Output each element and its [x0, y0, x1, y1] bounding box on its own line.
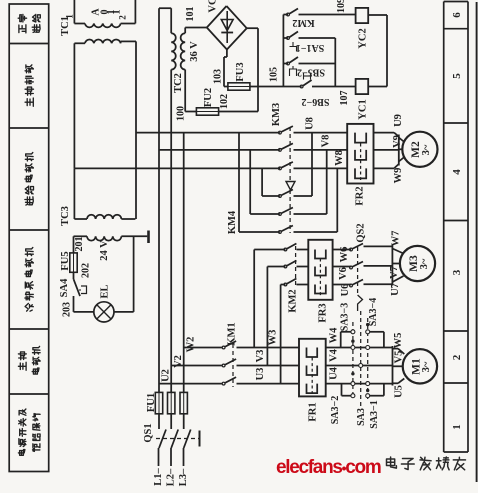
svg-text:W3: W3	[268, 330, 279, 346]
tap wire to KM2-3	[280, 285, 282, 384]
label 电源开关及短路保护	[18, 450, 25, 456]
svg-text:SA4: SA4	[59, 278, 70, 297]
svg-text:107: 107	[339, 91, 350, 106]
svg-text:KM4: KM4	[227, 210, 238, 234]
svg-text:QS2: QS2	[355, 223, 366, 242]
svg-text:V5: V5	[393, 351, 404, 364]
svg-text:FU2: FU2	[203, 88, 214, 107]
svg-text:L2–: L2–	[166, 468, 177, 486]
tap wire to KM2-1	[253, 250, 255, 348]
switch SA1-1	[283, 37, 288, 39]
wire 102 to bridge	[219, 111, 258, 113]
svg-text:elecfans•com: elecfans•com	[276, 457, 381, 478]
wire KM1 to FR1 c	[237, 383, 300, 385]
svg-text:24 V: 24 V	[99, 240, 110, 261]
wire L2 to QS1	[170, 448, 172, 466]
button SB5-2	[283, 63, 288, 65]
wire YC1 return	[368, 86, 387, 88]
svg-text:105: 105	[269, 67, 280, 82]
label 主轴电动机	[18, 362, 26, 370]
svg-text:102: 102	[219, 94, 230, 109]
contact KM3-2	[279, 149, 282, 152]
phase wire node 3 (y168.4)	[74, 167, 280, 169]
wire L3 to QS1	[183, 448, 185, 466]
node 105 wire	[250, 86, 302, 88]
wire TC2 primary top (pi cap)	[170, 8, 172, 33]
node V8	[326, 150, 328, 214]
return bus vertical	[386, 15, 388, 87]
svg-text:2: 2	[118, 15, 128, 20]
tap wire V2 to KM1	[171, 365, 222, 367]
wire FR2 to M2 V9	[374, 149, 399, 151]
bus W2	[183, 133, 185, 393]
svg-text:W9: W9	[393, 168, 404, 184]
label 主轴制动	[25, 98, 33, 106]
motor M2	[398, 135, 400, 166]
svg-text:QS1: QS1	[143, 423, 154, 442]
wire SA4 to EL	[73, 296, 75, 312]
selector SA3 bottom bypass jog	[341, 384, 343, 396]
svg-text:L3–: L3–	[178, 468, 189, 486]
svg-text:V4: V4	[329, 348, 340, 362]
wire SA1/SB5 join	[334, 38, 336, 87]
SA3 contact circles	[351, 330, 355, 334]
svg-text:YC1: YC1	[358, 99, 369, 119]
tap wire to KM2-2	[266, 267, 268, 366]
KM4 crossover wire a	[238, 133, 240, 232]
svg-text:SA3: SA3	[356, 408, 367, 426]
svg-text:203: 203	[62, 302, 73, 317]
phase wire node 1 (y132.6)	[136, 132, 280, 134]
wire QS1 to FU1	[158, 414, 160, 426]
svg-text:SA1−1: SA1−1	[296, 42, 324, 53]
svg-text:4: 4	[451, 169, 463, 175]
svg-text:3~: 3~	[419, 258, 430, 269]
clutch YC1	[356, 79, 369, 94]
svg-text:YC2: YC2	[358, 28, 369, 48]
svg-text:SB6−2: SB6−2	[302, 96, 330, 107]
svg-text:VC: VC	[208, 0, 219, 13]
watermark 电子发烧友	[387, 457, 397, 468]
svg-text:U5: U5	[394, 385, 405, 398]
svg-text:FU3: FU3	[235, 62, 246, 81]
button SB6-2	[300, 85, 303, 88]
svg-text:2: 2	[451, 354, 463, 360]
svg-text:1: 1	[112, 10, 123, 15]
wire bridge to 103	[226, 50, 228, 58]
svg-text:201: 201	[74, 237, 85, 252]
sheet border left label column	[9, 4, 49, 472]
wire FR2 to M2 U9	[374, 132, 395, 134]
wire TC1 primary left	[73, 43, 75, 168]
contact KM4-3	[279, 231, 282, 234]
svg-text:W4: W4	[329, 327, 340, 344]
selector SA3 dashed columns	[352, 322, 354, 399]
svg-text:FR2: FR2	[355, 186, 366, 205]
wire FR1 to M1 U4	[326, 383, 393, 385]
wire TC1 secondary left up	[73, 0, 75, 24]
svg-text:3~: 3~	[421, 361, 432, 372]
svg-text:101: 101	[185, 7, 196, 22]
motor M1	[392, 346, 394, 386]
svg-text:U4: U4	[329, 366, 340, 380]
svg-text:TC3: TC3	[60, 206, 71, 226]
svg-text:W8: W8	[334, 150, 345, 166]
wire KM1 to FR1 a	[237, 347, 300, 349]
overload relay FR3	[308, 240, 332, 300]
svg-text:U3: U3	[255, 368, 266, 381]
contact KM3-1	[279, 131, 282, 134]
svg-text:5: 5	[451, 73, 463, 79]
wire YC2 return	[368, 14, 387, 16]
svg-text:EL: EL	[100, 284, 111, 298]
svg-text:1: 1	[65, 14, 75, 19]
wire FR1 to M1 V4	[326, 365, 393, 367]
svg-text:U9: U9	[393, 114, 404, 127]
svg-text:V6: V6	[338, 267, 349, 280]
svg-text:U8: U8	[305, 117, 316, 130]
svg-text:SA3−1: SA3−1	[369, 400, 380, 428]
wire 101 to bridge	[184, 28, 186, 34]
svg-text:103: 103	[213, 69, 224, 84]
KM3/KM4 linkage	[289, 127, 291, 233]
contact KM4-1	[279, 195, 282, 198]
wire L1 to QS1	[158, 448, 160, 466]
svg-text:SA3−4: SA3−4	[368, 298, 379, 326]
wire QS2 to M3	[364, 245, 393, 247]
svg-text:W7: W7	[391, 231, 402, 247]
phase wire node 2 (y149.9)	[159, 149, 280, 151]
ground bar	[147, 231, 150, 244]
tap wire U2 to KM1	[159, 383, 223, 385]
wire TC1 secondary right	[121, 23, 136, 25]
clutch YC2	[356, 8, 369, 23]
node U8	[311, 133, 313, 196]
tap wire W2 to KM1	[184, 347, 223, 349]
wire TC3 secondary left	[74, 235, 88, 237]
label 进给电动机	[25, 197, 33, 205]
motor M3	[391, 245, 393, 286]
selector SA3 top bypass jog	[340, 332, 342, 348]
svg-text:3: 3	[451, 269, 463, 275]
label 冷却泵电动机	[25, 303, 33, 311]
svg-text:3~: 3~	[421, 144, 432, 155]
wire TC1/TC3 vertical x136	[135, 41, 137, 219]
svg-text:V3: V3	[255, 350, 266, 363]
svg-text:1: 1	[451, 424, 463, 430]
bus V2	[170, 70, 172, 393]
contact KM3-3	[279, 167, 282, 170]
contact KM2 (clutch select)	[283, 14, 288, 16]
bus U2	[158, 8, 160, 392]
svg-text:FR3: FR3	[318, 303, 329, 322]
node W8	[336, 168, 338, 232]
label 正常进给	[19, 25, 26, 33]
svg-text:W5: W5	[393, 333, 404, 349]
wire FR1 to M1 W4	[326, 347, 393, 349]
wire FR3 to QS2	[333, 249, 351, 251]
svg-text:U2: U2	[161, 369, 172, 382]
svg-text:109: 109	[336, 0, 347, 13]
svg-text:L1–: L1–	[153, 468, 164, 486]
contactor KM2 (pump)	[284, 248, 287, 251]
interlock triangle	[286, 182, 295, 191]
wire TC1 primary right	[121, 40, 136, 42]
svg-text:6: 6	[451, 12, 463, 18]
overload relay FR1	[299, 339, 326, 397]
svg-text:SA3−2: SA3−2	[330, 396, 341, 424]
svg-text:W6: W6	[339, 247, 350, 263]
zone number column	[443, 2, 445, 453]
svg-text:TC2: TC2	[173, 73, 184, 93]
overload relay FR2	[347, 124, 373, 184]
svg-text:36 V: 36 V	[189, 41, 200, 62]
svg-text:KM3: KM3	[271, 103, 282, 126]
wire KM1 to FR1 b	[237, 365, 300, 367]
wire FR2 to M2 W9	[374, 167, 395, 169]
sheet border right	[476, 2, 478, 482]
svg-text:W2: W2	[185, 337, 196, 353]
wire EL to return	[114, 311, 134, 313]
svg-text:202: 202	[81, 263, 92, 278]
svg-text:SA3−3: SA3−3	[340, 303, 351, 331]
control bus 105 vertical	[282, 15, 284, 87]
wire lamp return vertical	[133, 236, 135, 312]
svg-text:V8: V8	[321, 135, 332, 148]
wire TC3 primary left	[73, 169, 75, 220]
contact KM4-2	[279, 213, 282, 216]
svg-text:FR1: FR1	[308, 402, 319, 421]
svg-text:V7: V7	[389, 266, 400, 279]
svg-text:KM2: KM2	[292, 17, 314, 28]
svg-text:KM2: KM2	[287, 289, 298, 312]
wire TC3 secondary right	[121, 235, 147, 237]
wire TC3 primary right	[121, 218, 135, 220]
wire 100 to FU2	[184, 70, 186, 112]
KM4 crossover wire b	[249, 150, 251, 214]
KM4 crossover wire c	[261, 168, 263, 196]
